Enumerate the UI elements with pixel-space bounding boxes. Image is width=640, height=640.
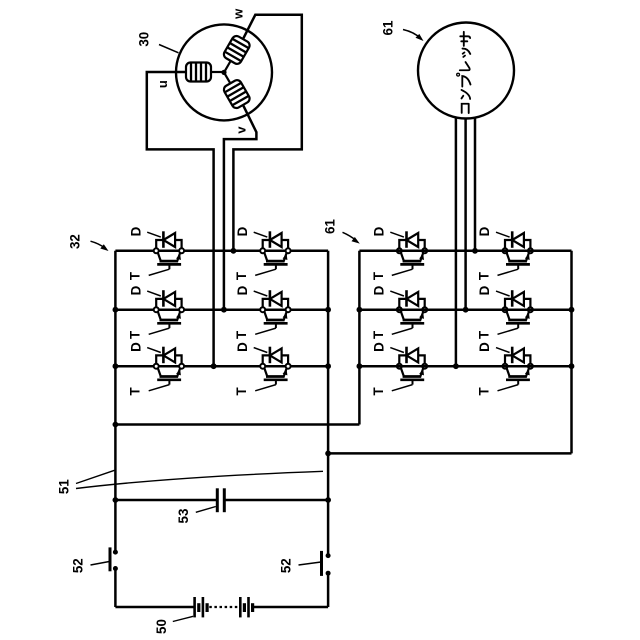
battery 50 cell plates (right group) — [239, 597, 242, 617]
transistor T + diode D cell, inverter 61 rail3 upper — [371, 342, 427, 396]
wire compressor phase 3 to rail 1 — [474, 118, 477, 251]
arrow leader for label 32 — [91, 241, 106, 248]
node compressor phase 3 on rail 1 — [472, 248, 478, 254]
transistor T + diode D cell, inverter 61 rail2 lower — [477, 285, 533, 339]
node phase w on rail 1 — [231, 248, 237, 254]
node phase u on rail 3 — [211, 363, 217, 369]
transistor T + diode D cell, inverter 32 rail3 lower — [234, 342, 290, 396]
label compressor text (katakana) — [457, 32, 471, 113]
leader line for label 30 — [159, 45, 179, 53]
arrow leader for compressor label 61 — [403, 30, 421, 39]
wire phase v: coil v to inverter 32 rail 2 — [224, 105, 257, 310]
svg-text:u: u — [155, 80, 170, 88]
node left bus / rail 2 — [113, 307, 119, 313]
compressor (61) circle — [418, 23, 514, 119]
inverter 61 positive bus (left) — [358, 251, 361, 425]
inverter 61 rail 2 — [359, 308, 571, 311]
inverter 32 rail 3 (phase u leg) — [115, 365, 328, 368]
wire motor neutral to coil u — [211, 71, 225, 73]
inverter 61 negative bus (right) — [570, 251, 573, 454]
node inv61 right bus / rail 3 — [569, 363, 575, 369]
coil v (motor winding) — [222, 79, 251, 110]
node capacitor line / right bus — [325, 497, 331, 503]
arrow leader for inverter label 61 — [343, 232, 357, 240]
node inv61 left bus / rail 2 — [357, 307, 363, 313]
node inv61 left bus / rail 3 — [357, 363, 363, 369]
node inv61 right bus / rail 2 — [569, 307, 575, 313]
svg-text:w: w — [231, 8, 246, 20]
battery 50 cell plates (left group) — [193, 597, 196, 617]
wire motor neutral to coil v — [224, 72, 231, 84]
wire phase u: coil u to inverter 32 rail 3 — [147, 72, 214, 366]
svg-text:52: 52 — [279, 558, 294, 573]
transistor T + diode D cell, inverter 32 rail3 upper — [128, 342, 184, 396]
leader 50 — [173, 616, 193, 621]
wire capacitor line right segment — [224, 499, 328, 502]
svg-text:61: 61 — [381, 20, 396, 35]
motor M (30) stator circle — [176, 24, 272, 120]
switch 52 (left relay) blade — [109, 547, 112, 571]
inverter 32 rail 1 (phase w leg) — [115, 250, 328, 253]
inverter 61 rail 3 — [359, 365, 571, 368]
svg-text:61: 61 — [323, 219, 338, 234]
transistor T + diode D cell, inverter 61 rail1 upper — [371, 226, 427, 280]
transistor T + diode D cell, inverter 32 rail1 upper — [128, 226, 184, 280]
switch 52 (right relay) contacts — [326, 553, 331, 558]
node DC+ link on left bus — [113, 422, 119, 428]
transistor T + diode D cell, inverter 61 rail2 upper — [371, 285, 427, 339]
svg-text:32: 32 — [68, 234, 83, 249]
svg-text:53: 53 — [176, 509, 191, 524]
capacitor 53 — [216, 488, 219, 512]
inverter 32 negative bus (right) — [327, 251, 330, 556]
node compressor phase 2 on rail 2 — [463, 307, 469, 313]
leader 52 left — [91, 562, 110, 566]
transistor T + diode D cell, inverter 32 rail1 lower — [234, 226, 290, 280]
transistor T + diode D cell, inverter 61 rail1 lower — [477, 226, 533, 280]
motor neutral node (star point) — [221, 70, 226, 75]
node left bus / rail 3 — [113, 363, 119, 369]
wire battery line right — [254, 606, 329, 609]
transistor T + diode D cell, inverter 61 rail3 lower — [477, 342, 533, 396]
coil w (motor winding) — [222, 34, 251, 65]
wire DC negative link (51) — [328, 452, 571, 455]
node DC- link on right bus — [325, 451, 331, 457]
coil u (motor winding) — [186, 63, 211, 82]
wire DC positive link (51) — [115, 423, 359, 426]
svg-text:50: 50 — [154, 619, 169, 634]
wire phase w: coil w to inverter 32 rail 1 — [233, 15, 301, 251]
leader 52 right — [299, 562, 322, 565]
svg-text:52: 52 — [71, 558, 86, 573]
wire battery line left — [115, 606, 193, 609]
node capacitor line / left bus — [113, 497, 119, 503]
inverter 32 positive bus (left) — [114, 251, 117, 552]
node right bus / rail 3 — [325, 363, 331, 369]
wire compressor phase 2 to rail 2 — [464, 118, 467, 310]
wire compressor phase 1 to rail 3 — [455, 118, 458, 366]
svg-text:30: 30 — [137, 32, 152, 47]
node phase v on rail 2 — [221, 307, 227, 313]
svg-text:51: 51 — [57, 479, 72, 494]
node right bus / rail 2 — [325, 307, 331, 313]
leader 53 — [196, 507, 216, 513]
wire battery dashed middle — [209, 606, 239, 608]
wire motor neutral to coil w — [224, 61, 231, 73]
inverter 61 rail 1 — [359, 250, 571, 253]
node compressor phase 1 on rail 3 — [453, 363, 459, 369]
wire capacitor line left segment — [115, 499, 217, 502]
transistor T + diode D cell, inverter 32 rail2 lower — [234, 285, 290, 339]
switch 52 (right relay) blade — [320, 551, 323, 576]
svg-text:v: v — [234, 126, 249, 134]
transistor T + diode D cell, inverter 32 rail2 upper — [128, 285, 184, 339]
inverter 32 rail 2 (phase v leg) — [115, 308, 328, 311]
switch 52 (left relay) contacts — [113, 550, 118, 555]
leader 51 to positive bus — [76, 470, 115, 483]
leader 51 to negative bus — [76, 471, 323, 488]
